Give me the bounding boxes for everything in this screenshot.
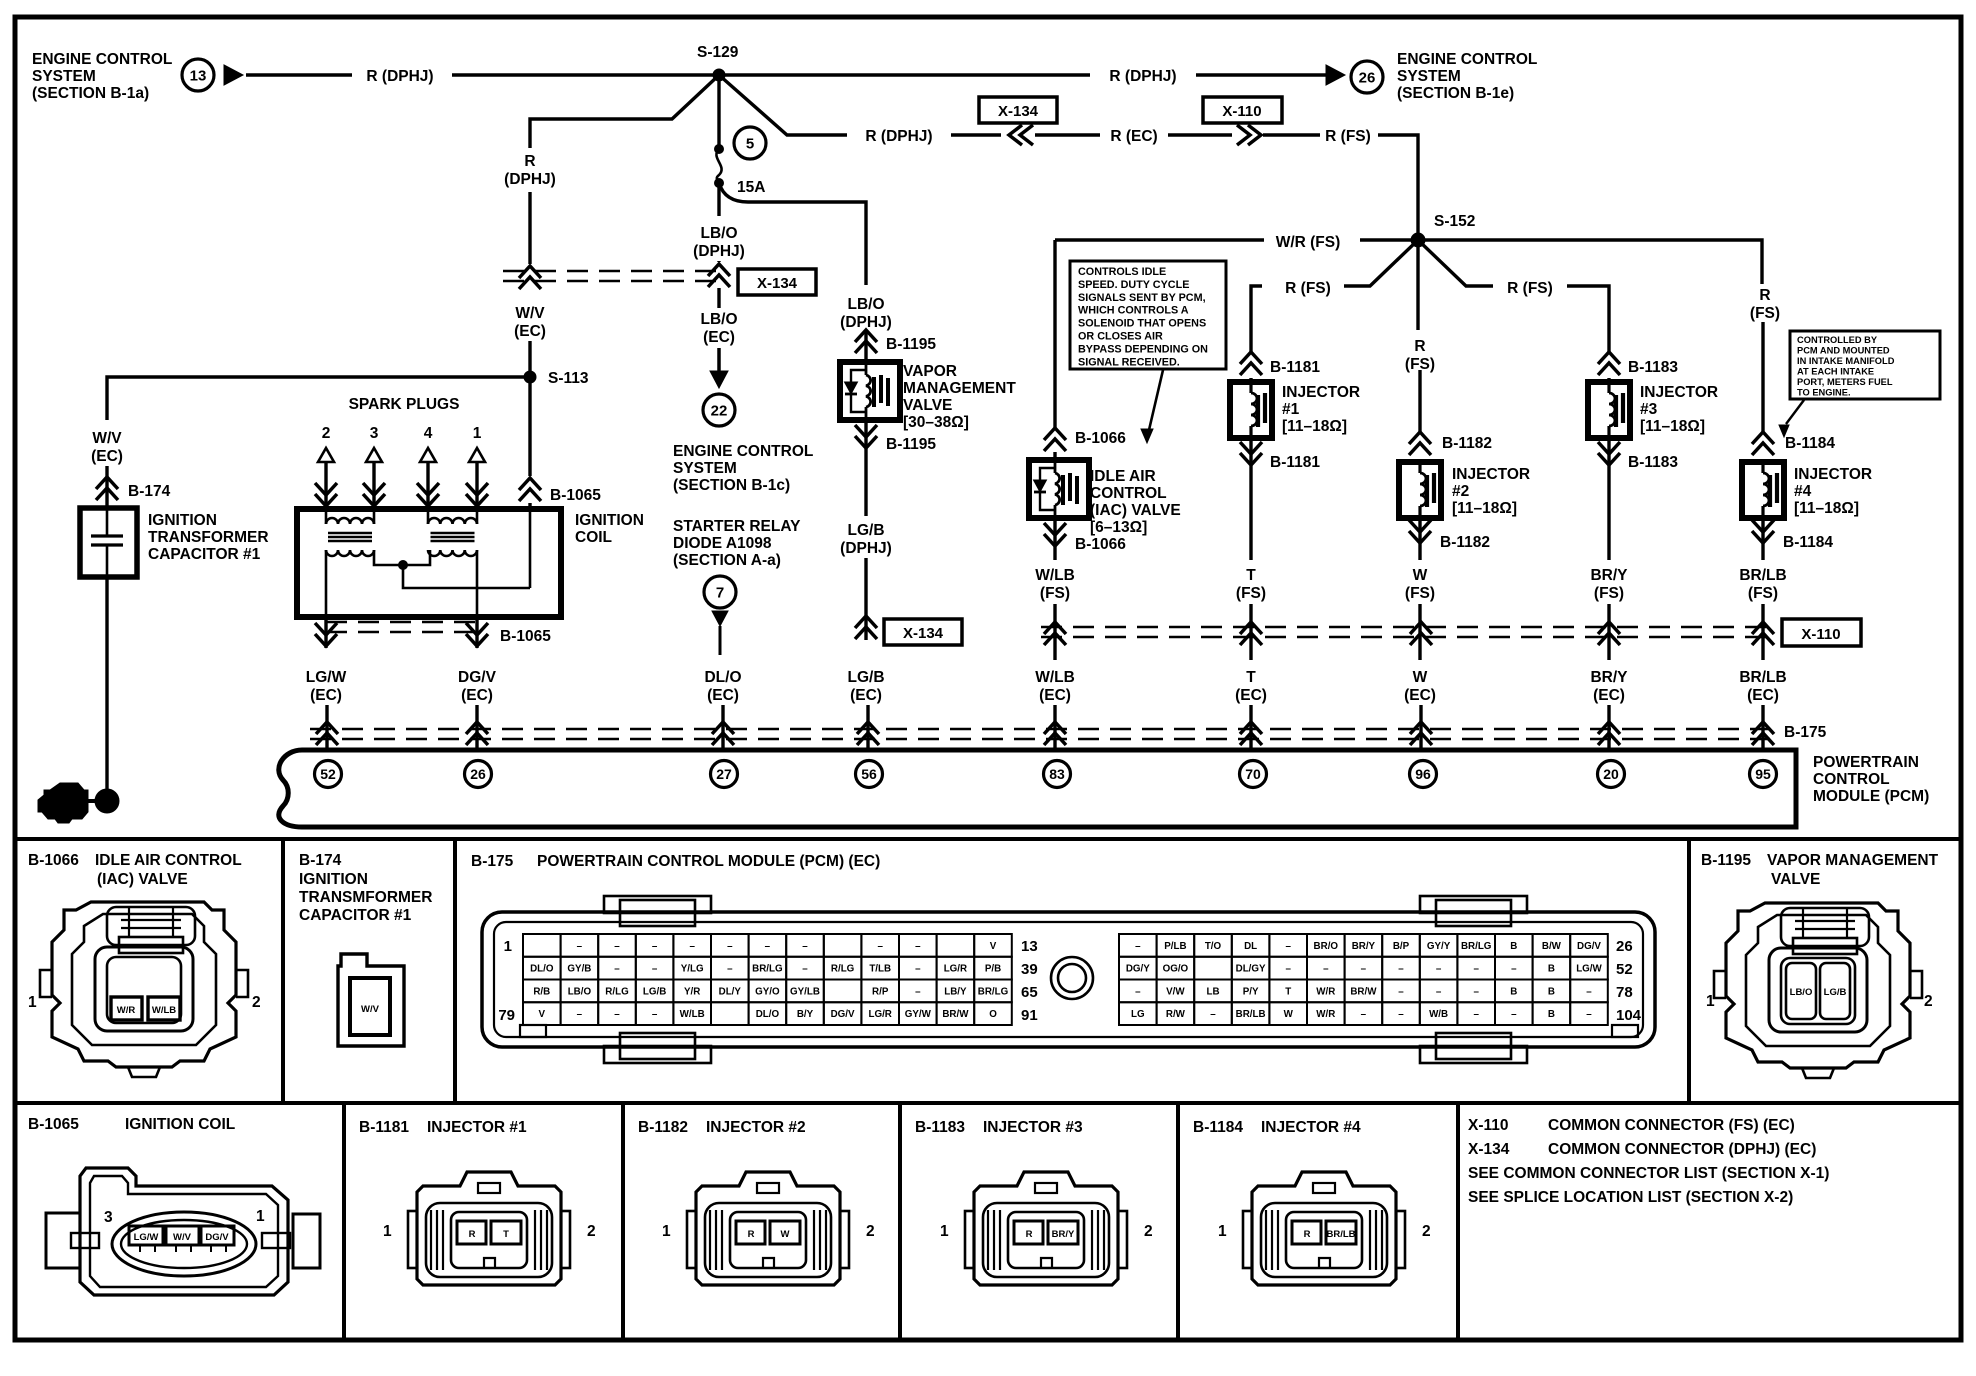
svg-text:1: 1 xyxy=(473,425,482,442)
PCM pin 96 xyxy=(1410,761,1437,788)
X-134 box top xyxy=(979,97,1057,123)
svg-text:BR/LB: BR/LB xyxy=(1236,1009,1266,1020)
idle air control valve xyxy=(1053,452,1056,460)
svg-text:X-110: X-110 xyxy=(1222,103,1261,120)
wire W to PCM xyxy=(1419,705,1422,750)
node 26 xyxy=(1351,61,1383,93)
svg-text:(IAC) VALVE: (IAC) VALVE xyxy=(1090,502,1181,519)
svg-text:5: 5 xyxy=(746,135,754,152)
svg-text:INJECTOR #2: INJECTOR #2 xyxy=(706,1119,806,1136)
svg-text:P/B: P/B xyxy=(985,964,1001,975)
svg-text:IGNITION: IGNITION xyxy=(148,512,217,529)
ground G xyxy=(38,783,88,823)
connector chevron B-174 xyxy=(96,477,118,500)
svg-text:SIGNAL RECEIVED.: SIGNAL RECEIVED. xyxy=(1078,356,1180,368)
svg-text:B-1066: B-1066 xyxy=(1075,536,1126,553)
svg-text:R/LG: R/LG xyxy=(605,986,629,997)
svg-text:B-1182: B-1182 xyxy=(1442,435,1492,452)
svg-text:R/W: R/W xyxy=(1166,1009,1186,1020)
PCM pin 95 xyxy=(1750,761,1777,788)
wire injector 2 drop xyxy=(1416,240,1419,330)
wire capacitor to ground xyxy=(105,577,108,801)
svg-text:BR/Y: BR/Y xyxy=(1590,567,1628,584)
svg-text:MODULE (PCM): MODULE (PCM) xyxy=(1813,788,1929,805)
connector B-1066 face xyxy=(40,902,248,1077)
splice S-113 xyxy=(524,371,536,383)
svg-text:R (FS): R (FS) xyxy=(1325,128,1371,145)
svg-text:B-1183: B-1183 xyxy=(1628,454,1678,471)
svg-text:CONTROL: CONTROL xyxy=(1813,771,1890,788)
svg-text:(FS): (FS) xyxy=(1594,585,1624,602)
svg-text:DL/O: DL/O xyxy=(756,1009,780,1020)
wire W/V into coil xyxy=(528,377,531,476)
connector B-1065 face xyxy=(46,1168,320,1295)
wire LG/B xyxy=(864,450,867,516)
svg-text:BR/Y: BR/Y xyxy=(1052,1229,1075,1240)
svg-text:(EC): (EC) xyxy=(850,687,882,704)
svg-text:(EC): (EC) xyxy=(1039,687,1071,704)
svg-text:(FS): (FS) xyxy=(1405,585,1435,602)
svg-text:–: – xyxy=(1361,964,1367,975)
svg-text:SOLENOID THAT OPENS: SOLENOID THAT OPENS xyxy=(1078,318,1206,330)
svg-text:INJECTOR #4: INJECTOR #4 xyxy=(1261,1119,1361,1136)
wire W/R (FS) left xyxy=(1360,238,1418,241)
svg-text:(EC): (EC) xyxy=(514,323,546,340)
svg-text:BR/LG: BR/LG xyxy=(752,964,783,975)
svg-text:(FS): (FS) xyxy=(1748,585,1778,602)
svg-text:W: W xyxy=(781,1229,790,1240)
svg-text:R: R xyxy=(748,1229,755,1240)
mounting hole xyxy=(1051,957,1093,999)
svg-text:#3: #3 xyxy=(1640,401,1658,418)
wire W/LB xyxy=(1053,548,1056,560)
svg-text:T: T xyxy=(1285,986,1291,997)
row2 divider 1 xyxy=(342,1103,346,1340)
svg-text:Y/LG: Y/LG xyxy=(681,964,704,975)
svg-text:–: – xyxy=(1586,1009,1592,1020)
transformer left xyxy=(326,518,374,524)
svg-text:[11–18Ω]: [11–18Ω] xyxy=(1452,500,1517,517)
wire BR/LB to PCM xyxy=(1761,705,1764,750)
svg-text:91: 91 xyxy=(1021,1007,1038,1024)
wire injector 4 drop xyxy=(1418,240,1762,284)
svg-text:BR/W: BR/W xyxy=(1350,986,1377,997)
coil internal wires xyxy=(325,509,328,524)
svg-text:26: 26 xyxy=(1616,938,1633,955)
wire W/LB to PCM xyxy=(1053,705,1056,750)
svg-text:–: – xyxy=(689,941,695,952)
svg-text:B-1184: B-1184 xyxy=(1783,534,1833,551)
injector #2 xyxy=(1399,462,1441,518)
wire R (EC) segment xyxy=(951,133,1001,136)
svg-text:3: 3 xyxy=(370,425,379,442)
svg-text:R (DPHJ): R (DPHJ) xyxy=(1109,68,1176,85)
svg-text:W/R: W/R xyxy=(117,1005,136,1016)
note box controlled by PCM xyxy=(1790,331,1940,399)
PCM pin 83 xyxy=(1044,761,1071,788)
svg-text:SIGNALS SENT BY PCM,: SIGNALS SENT BY PCM, xyxy=(1078,292,1206,304)
note arrow injector 4 xyxy=(1786,400,1804,424)
dashed bus B-175 xyxy=(310,728,1770,731)
svg-text:(FS): (FS) xyxy=(1405,356,1435,373)
svg-text:COMMON CONNECTOR (FS) (EC): COMMON CONNECTOR (FS) (EC) xyxy=(1548,1117,1795,1134)
svg-text:96: 96 xyxy=(1415,766,1431,782)
svg-text:(DPHJ): (DPHJ) xyxy=(693,243,745,260)
svg-text:B-1184: B-1184 xyxy=(1193,1119,1243,1136)
svg-text:B-1182: B-1182 xyxy=(638,1119,688,1136)
connector chevron FS bus xyxy=(1044,622,1066,645)
injector #1 xyxy=(1230,382,1272,438)
svg-text:R (EC): R (EC) xyxy=(1110,128,1157,145)
X-110 box right xyxy=(1782,619,1861,646)
svg-text:1: 1 xyxy=(28,994,37,1011)
svg-text:CAPACITOR #1: CAPACITOR #1 xyxy=(148,546,261,563)
svg-text:78: 78 xyxy=(1616,984,1633,1001)
svg-text:IDLE AIR: IDLE AIR xyxy=(1090,468,1156,485)
svg-text:DL/O: DL/O xyxy=(704,669,741,686)
svg-text:PCM AND MOUNTED: PCM AND MOUNTED xyxy=(1797,346,1890,356)
svg-text:BR/LB: BR/LB xyxy=(1739,669,1786,686)
svg-text:LG/W: LG/W xyxy=(306,669,347,686)
injector #3 xyxy=(1588,382,1630,438)
svg-text:LG/R: LG/R xyxy=(944,964,967,975)
svg-text:–: – xyxy=(1323,964,1329,975)
connector chevron B-1184 top xyxy=(1752,432,1774,455)
pin table right xyxy=(1119,934,1157,957)
svg-text:LB/O: LB/O xyxy=(1790,987,1813,998)
svg-text:T: T xyxy=(1246,567,1256,584)
transformer right xyxy=(428,518,477,524)
svg-text:2: 2 xyxy=(1422,1223,1431,1240)
wire R (EC) xyxy=(1035,133,1100,136)
connector chevron FS bus xyxy=(1598,622,1620,645)
svg-text:B: B xyxy=(1548,986,1555,997)
wire R (FS) injector 1 xyxy=(1344,240,1418,286)
svg-text:–: – xyxy=(1511,964,1517,975)
svg-text:CONTROLLED BY: CONTROLLED BY xyxy=(1797,335,1878,345)
svg-text:–: – xyxy=(1473,1009,1479,1020)
svg-text:79: 79 xyxy=(498,1007,515,1024)
svg-text:IGNITION: IGNITION xyxy=(299,871,368,888)
svg-text:S-129: S-129 xyxy=(697,44,739,61)
X-134 box lower xyxy=(884,619,962,645)
svg-text:B-174: B-174 xyxy=(299,852,342,869)
svg-text:13: 13 xyxy=(190,67,207,84)
note box controls idle speed xyxy=(1070,261,1226,369)
svg-text:13: 13 xyxy=(1021,938,1038,955)
svg-text:–: – xyxy=(877,941,883,952)
svg-text:R (FS): R (FS) xyxy=(1285,280,1331,297)
svg-text:LB/O: LB/O xyxy=(568,986,592,997)
svg-text:W/R (FS): W/R (FS) xyxy=(1276,234,1341,251)
wire IAC drop xyxy=(1053,240,1056,428)
svg-text:IDLE AIR CONTROL: IDLE AIR CONTROL xyxy=(95,852,242,869)
svg-text:B/Y: B/Y xyxy=(797,1009,814,1020)
svg-text:WHICH CONTROLS A: WHICH CONTROLS A xyxy=(1078,305,1189,317)
svg-text:GY/B: GY/B xyxy=(567,964,591,975)
svg-text:(SECTION A-a): (SECTION A-a) xyxy=(673,552,781,569)
svg-text:W/LB: W/LB xyxy=(1035,669,1075,686)
wire down to S-113 xyxy=(528,192,531,264)
connector B-175 housing xyxy=(482,912,1655,1047)
svg-text:TRANSFORMER: TRANSFORMER xyxy=(148,529,269,546)
svg-text:39: 39 xyxy=(1021,961,1038,978)
connector chevron PCM bus xyxy=(1598,722,1620,745)
svg-text:TRANSMFORMER: TRANSMFORMER xyxy=(299,889,432,906)
svg-text:R/B: R/B xyxy=(533,986,550,997)
svg-text:BR/Y: BR/Y xyxy=(1352,941,1376,952)
svg-text:52: 52 xyxy=(320,766,336,782)
table top border xyxy=(13,837,1961,841)
pin table left xyxy=(523,934,561,957)
svg-text:R/P: R/P xyxy=(872,986,889,997)
svg-text:W/V: W/V xyxy=(92,430,122,447)
svg-text:W/B: W/B xyxy=(1429,1009,1448,1020)
svg-text:X-110: X-110 xyxy=(1801,626,1840,643)
wire to X-110 xyxy=(1168,133,1232,136)
svg-text:[6–13Ω]: [6–13Ω] xyxy=(1090,519,1147,536)
svg-text:LG/W: LG/W xyxy=(134,1232,159,1243)
svg-text:R: R xyxy=(469,1229,476,1240)
svg-text:–: – xyxy=(1473,964,1479,975)
svg-text:(DPHJ): (DPHJ) xyxy=(840,540,892,557)
svg-text:POWERTRAIN CONTROL MODULE (PCM: POWERTRAIN CONTROL MODULE (PCM) (EC) xyxy=(537,853,880,870)
svg-text:B: B xyxy=(1548,1009,1555,1020)
svg-text:B: B xyxy=(1510,986,1517,997)
svg-text:20: 20 xyxy=(1603,766,1619,782)
wire down to B-174 xyxy=(105,466,108,508)
svg-text:VALVE: VALVE xyxy=(1771,871,1820,888)
svg-text:R (DPHJ): R (DPHJ) xyxy=(366,68,433,85)
svg-text:VAPOR MANAGEMENT: VAPOR MANAGEMENT xyxy=(1767,852,1939,869)
wire diagonal S-129 right xyxy=(719,75,847,135)
svg-text:MANAGEMENT: MANAGEMENT xyxy=(903,380,1016,397)
svg-text:[30–38Ω]: [30–38Ω] xyxy=(903,414,969,431)
svg-text:B-1184: B-1184 xyxy=(1785,435,1835,452)
svg-text:LG/R: LG/R xyxy=(868,1009,891,1020)
svg-text:26: 26 xyxy=(1359,69,1376,86)
connector chevron X-134 crossing xyxy=(519,266,541,289)
row2 divider 3 xyxy=(898,1103,902,1340)
connector chevron B-1183 top xyxy=(1598,352,1620,375)
svg-text:BR/LG: BR/LG xyxy=(978,986,1009,997)
svg-text:B/W: B/W xyxy=(1542,941,1562,952)
connector chevron X-134 lower xyxy=(855,616,877,639)
svg-text:56: 56 xyxy=(861,766,877,782)
svg-text:GY/O: GY/O xyxy=(755,986,780,997)
svg-text:–: – xyxy=(1473,986,1479,997)
svg-text:LB/O: LB/O xyxy=(847,296,884,313)
svg-text:W: W xyxy=(1413,669,1428,686)
svg-text:G: G xyxy=(55,793,71,815)
connector chevron PCM bus xyxy=(1752,722,1774,745)
svg-text:X-134: X-134 xyxy=(757,275,798,292)
arrow down to node 22 xyxy=(717,348,721,372)
connector chevrons X-110 right xyxy=(1237,125,1261,145)
wire branch to vapor column xyxy=(719,183,866,285)
connector chevron B-1181 top xyxy=(1240,352,1262,375)
svg-text:GY/LB: GY/LB xyxy=(790,986,820,997)
wire R (FS) injector 3 xyxy=(1418,240,1493,286)
svg-text:B-1182: B-1182 xyxy=(1440,534,1490,551)
connector chevron X-134 xyxy=(708,264,730,287)
svg-text:SEE COMMON CONNECTOR LIST (SEC: SEE COMMON CONNECTOR LIST (SECTION X-1) xyxy=(1468,1165,1829,1182)
svg-text:B-174: B-174 xyxy=(128,483,171,500)
svg-text:R: R xyxy=(1759,287,1770,304)
svg-text:BYPASS DEPENDING ON: BYPASS DEPENDING ON xyxy=(1078,343,1208,355)
svg-text:X-110: X-110 xyxy=(1468,1117,1509,1134)
node 13 xyxy=(182,59,214,91)
svg-text:B/P: B/P xyxy=(1393,941,1410,952)
svg-text:(EC): (EC) xyxy=(310,687,342,704)
svg-text:(DPHJ): (DPHJ) xyxy=(504,171,556,188)
svg-text:1: 1 xyxy=(940,1223,949,1240)
svg-text:TO ENGINE.: TO ENGINE. xyxy=(1797,388,1851,398)
svg-text:B-1065: B-1065 xyxy=(500,628,551,645)
svg-text:B-175: B-175 xyxy=(1784,724,1827,741)
fuse 15A xyxy=(715,145,724,154)
svg-text:B-1195: B-1195 xyxy=(886,436,936,453)
connector chevron B-1183 bottom xyxy=(1607,438,1610,467)
svg-text:INJECTOR: INJECTOR xyxy=(1794,466,1872,483)
svg-text:(EC): (EC) xyxy=(703,329,735,346)
svg-text:SYSTEM: SYSTEM xyxy=(1397,68,1461,85)
svg-text:–: – xyxy=(652,1009,658,1020)
svg-text:–: – xyxy=(614,1009,620,1020)
PCM pin 56 xyxy=(856,761,883,788)
svg-text:X-134: X-134 xyxy=(1468,1141,1510,1158)
wire fuse to LB/O label xyxy=(717,183,720,216)
wire LG/B down xyxy=(864,558,867,640)
svg-text:B-1183: B-1183 xyxy=(1628,359,1678,376)
svg-text:(FS): (FS) xyxy=(1750,305,1780,322)
svg-text:DL/Y: DL/Y xyxy=(719,986,742,997)
svg-text:P/Y: P/Y xyxy=(1243,986,1259,997)
svg-text:2: 2 xyxy=(322,425,331,442)
svg-text:83: 83 xyxy=(1049,766,1065,782)
svg-text:LG/B: LG/B xyxy=(847,669,884,686)
svg-text:V: V xyxy=(539,1009,546,1020)
svg-text:B-1195: B-1195 xyxy=(1701,852,1751,869)
svg-text:(EC): (EC) xyxy=(1747,687,1779,704)
svg-text:2: 2 xyxy=(1924,993,1933,1010)
connector chevron B-1066 bottom xyxy=(1053,518,1056,548)
svg-text:(IAC) VALVE: (IAC) VALVE xyxy=(97,871,188,888)
svg-text:2: 2 xyxy=(866,1223,875,1240)
svg-text:(EC): (EC) xyxy=(461,687,493,704)
svg-text:–: – xyxy=(1135,986,1141,997)
svg-text:W/V: W/V xyxy=(515,305,545,322)
svg-text:DG/V: DG/V xyxy=(831,1009,855,1020)
svg-text:27: 27 xyxy=(716,766,732,782)
svg-text:GY/W: GY/W xyxy=(905,1009,932,1020)
svg-text:BR/LB: BR/LB xyxy=(1739,567,1786,584)
svg-text:DG/Y: DG/Y xyxy=(1126,964,1150,975)
svg-text:DL/O: DL/O xyxy=(530,964,554,975)
connector chevron PCM bus xyxy=(857,722,879,745)
svg-text:LG/B: LG/B xyxy=(847,522,884,539)
dashed bus X-134 top xyxy=(503,270,717,273)
svg-text:B-1066: B-1066 xyxy=(28,852,79,869)
svg-text:4: 4 xyxy=(424,425,433,442)
svg-text:–: – xyxy=(727,941,733,952)
svg-text:(EC): (EC) xyxy=(1235,687,1267,704)
note arrow to IAC xyxy=(1149,370,1163,430)
connector chevron B-1195 top xyxy=(864,331,867,362)
wire S-113 to capacitor branch xyxy=(107,377,530,420)
svg-text:P/LB: P/LB xyxy=(1164,941,1186,952)
ignition coil box xyxy=(297,509,561,617)
svg-text:–: – xyxy=(1210,1009,1216,1020)
svg-text:R: R xyxy=(1026,1229,1033,1240)
svg-text:–: – xyxy=(1586,986,1592,997)
svg-text:X-134: X-134 xyxy=(903,625,944,642)
svg-text:–: – xyxy=(577,1009,583,1020)
svg-text:–: – xyxy=(1361,1009,1367,1020)
connector chevron B-1181 bottom xyxy=(1249,438,1252,467)
svg-text:R: R xyxy=(524,153,535,170)
svg-text:S-113: S-113 xyxy=(548,370,589,387)
svg-text:(EC): (EC) xyxy=(1404,687,1436,704)
row2 divider 4 xyxy=(1176,1103,1180,1340)
powertrain control module box xyxy=(279,750,1796,827)
vapor management valve xyxy=(840,362,900,420)
coil output chevrons B-1065 xyxy=(324,617,327,648)
svg-text:COIL: COIL xyxy=(575,529,612,546)
X-110 box top xyxy=(1203,97,1282,123)
svg-text:B: B xyxy=(1510,941,1517,952)
svg-text:26: 26 xyxy=(470,766,486,782)
connector B-1181 face xyxy=(408,1172,570,1285)
svg-text:B-1195: B-1195 xyxy=(886,336,936,353)
svg-text:W/LB: W/LB xyxy=(680,1009,705,1020)
svg-text:–: – xyxy=(1511,1009,1517,1020)
svg-text:W/LB: W/LB xyxy=(1035,567,1075,584)
svg-text:R: R xyxy=(1304,1229,1311,1240)
svg-text:IGNITION: IGNITION xyxy=(575,512,644,529)
svg-text:LG/B: LG/B xyxy=(643,986,666,997)
svg-text:1: 1 xyxy=(1218,1223,1227,1240)
svg-text:BR/LB: BR/LB xyxy=(1326,1229,1355,1240)
svg-text:LB/Y: LB/Y xyxy=(944,986,967,997)
dashed bus B-1065 xyxy=(326,621,477,623)
connector chevron PCM bus xyxy=(1410,722,1432,745)
svg-text:O: O xyxy=(989,1009,997,1020)
svg-text:95: 95 xyxy=(1755,766,1771,782)
svg-text:1: 1 xyxy=(662,1223,671,1240)
wire LG/B to PCM xyxy=(866,705,869,750)
svg-text:VALVE: VALVE xyxy=(903,397,952,414)
svg-text:Y/R: Y/R xyxy=(684,986,700,997)
svg-text:T/LB: T/LB xyxy=(869,964,891,975)
connector chevron FS bus xyxy=(1410,622,1432,645)
svg-text:W/V: W/V xyxy=(361,1004,380,1015)
row1 divider 3 xyxy=(1687,839,1691,1103)
connector chevron B-1195 bottom xyxy=(864,420,867,450)
svg-text:(FS): (FS) xyxy=(1236,585,1266,602)
table row divider xyxy=(13,1101,1961,1105)
svg-text:LB: LB xyxy=(1206,986,1219,997)
svg-text:W/R: W/R xyxy=(1316,1009,1335,1020)
svg-text:DL/GY: DL/GY xyxy=(1236,964,1266,975)
svg-text:–: – xyxy=(652,964,658,975)
svg-text:SYSTEM: SYSTEM xyxy=(32,68,96,85)
wire BR/Y (FS) xyxy=(1607,467,1610,560)
svg-text:VAPOR: VAPOR xyxy=(903,363,957,380)
svg-text:B-1065: B-1065 xyxy=(28,1116,79,1133)
connector chevron B-1066 top xyxy=(1044,428,1066,451)
connector chevron PCM bus xyxy=(466,722,488,745)
